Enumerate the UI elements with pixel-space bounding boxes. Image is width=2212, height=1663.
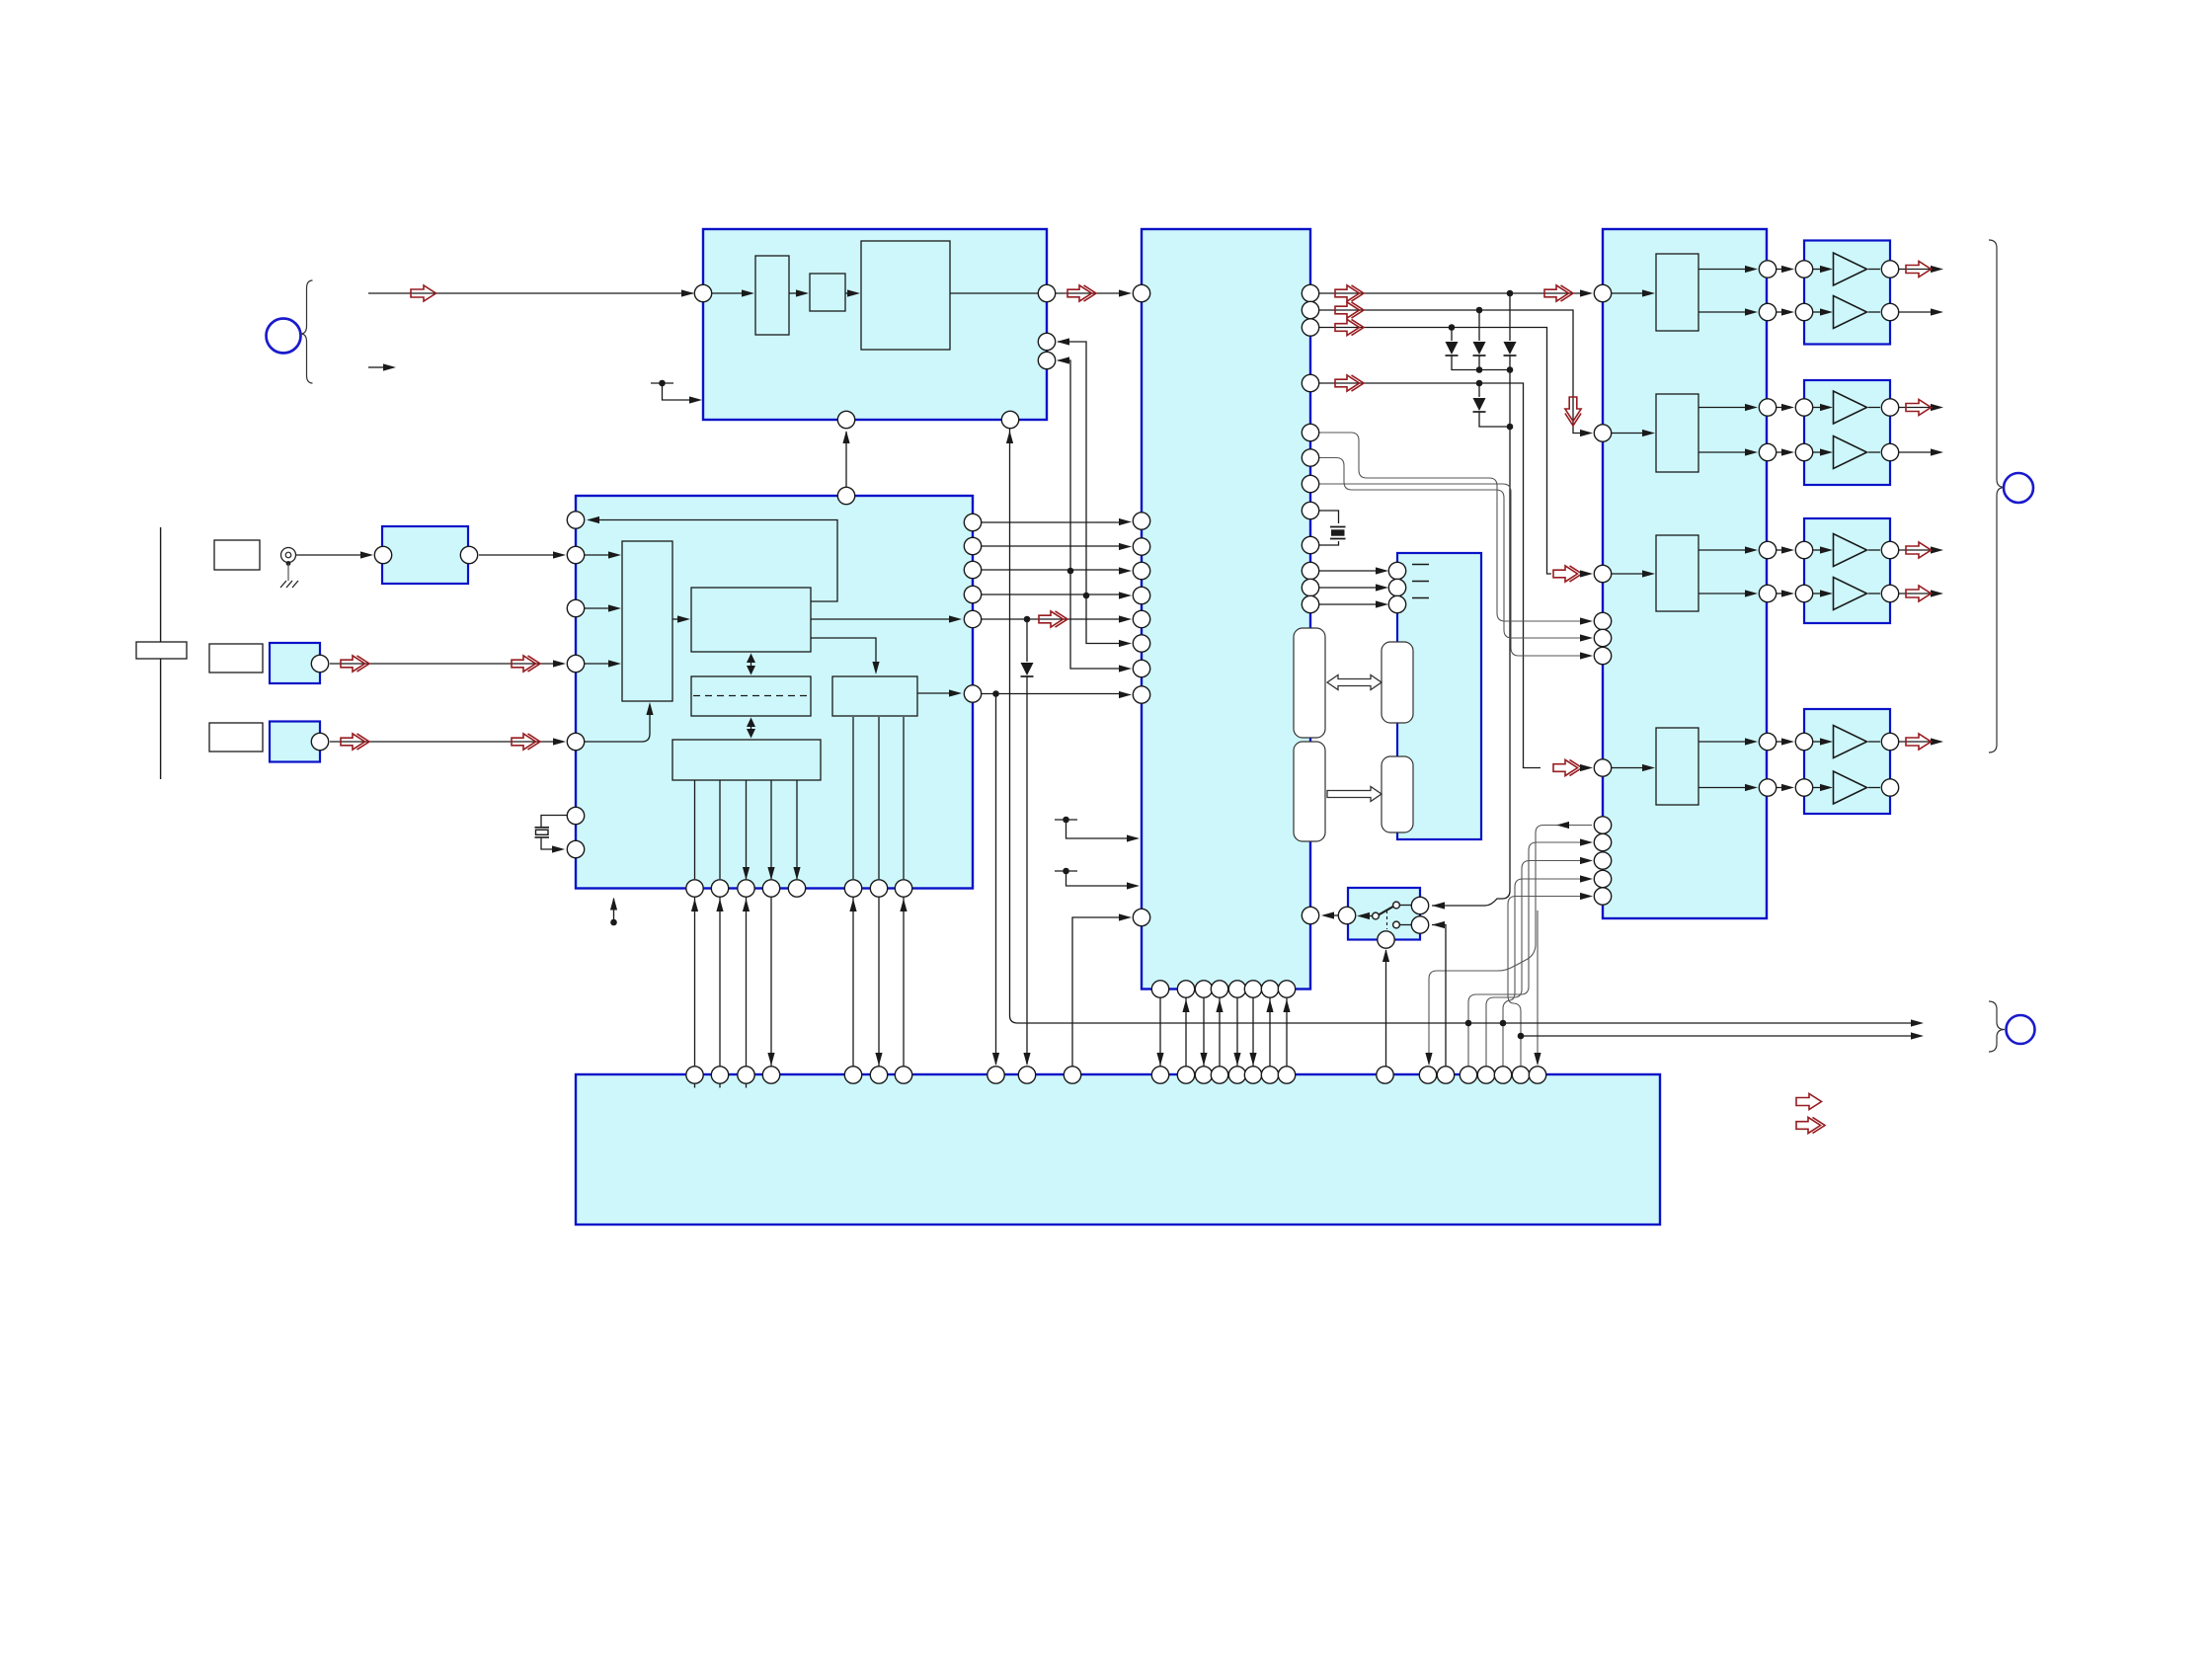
wire servo-DSP data4 (982, 594, 1121, 595)
arrowhead DAC rect 4 (1642, 764, 1655, 771)
servo in4 pin (567, 733, 584, 750)
firmware box F4 (1382, 756, 1413, 832)
op-amp triangle bottom 1 (1834, 296, 1867, 329)
DAC channel rect 1 (1656, 254, 1698, 331)
switch common contact (1373, 912, 1380, 919)
arrowhead switch lower pin (1432, 921, 1445, 928)
optical pickup circle (267, 319, 301, 354)
RF input pin (694, 284, 711, 301)
wire core out (811, 618, 951, 620)
wire DSP-syscon x1253 (1236, 998, 1238, 1067)
RF bottom pin b (1001, 411, 1018, 428)
wire X2 top (1319, 511, 1339, 523)
op-amp triangle top 1 (1834, 253, 1867, 285)
arrowhead power tap 1 (1127, 834, 1140, 841)
junction rail1 b (1500, 1020, 1507, 1027)
syscon pin26 (1529, 1067, 1545, 1083)
red arrow S2 a (341, 734, 369, 750)
wire servo interface lead x781 (770, 780, 772, 879)
arrowhead up servo pin x703.5 (691, 899, 698, 911)
wire DAC in 1 (1612, 292, 1644, 294)
sub pin stub 2 (1412, 581, 1429, 583)
arrowhead RF power tap (689, 396, 702, 403)
wire D5 to syscon (1026, 676, 1028, 1065)
arrowhead up servo pin x729 (716, 899, 723, 911)
DSP in pin4 (1133, 562, 1149, 579)
amp out pin top 3 (1881, 541, 1898, 558)
diode D4 (1473, 398, 1486, 411)
DSP in pin8 (1133, 660, 1149, 676)
switch link dashed (1386, 911, 1388, 929)
wire tri out bottom 3 (1868, 593, 1880, 594)
arrowhead pickup stub (383, 363, 396, 370)
DAC aux pin1 (1594, 612, 1611, 629)
arrowhead DSP switch pin (1321, 911, 1334, 918)
arrowhead sub pin 2 (1376, 584, 1388, 591)
red arrow line out y751 (1906, 734, 1932, 750)
wire DSP-sub 1 (1319, 570, 1378, 572)
arrowhead DSP clk (1119, 691, 1132, 698)
arrowhead DAC bus5 (1580, 893, 1593, 900)
wire line out y751 (1899, 741, 1933, 743)
wire servo-syscon x890 (878, 898, 880, 1067)
DSP left pin10 (1133, 909, 1149, 925)
wire DAC out bottom 1 (1698, 311, 1747, 313)
wire throw bottom (1400, 924, 1412, 926)
label box L1 (214, 540, 260, 570)
wire DAC bus4 (1503, 879, 1582, 1067)
arrowhead DSP data1 (1119, 518, 1132, 525)
syscon pin8 (987, 1067, 1004, 1083)
wire syscon pin stub x703.5 (694, 1083, 696, 1088)
wire switch common out (1367, 915, 1373, 917)
syscon pin7 (895, 1067, 911, 1083)
DSP in pin7 (1133, 635, 1149, 652)
open double arrow F1-F2 (1327, 675, 1382, 690)
DAC bus pin2 (1594, 833, 1611, 850)
DSP aux pin1 (1302, 424, 1318, 440)
wire core to RAM (750, 659, 752, 670)
amp in pin top 4 (1795, 733, 1812, 750)
junction clk (992, 690, 999, 697)
DAC in pin4 (1594, 759, 1611, 776)
wire line out y316 (1899, 311, 1933, 313)
arrowhead crystal bottom (552, 845, 565, 852)
DSP bottom pin3 (1195, 981, 1212, 997)
diode D1 (1446, 342, 1459, 355)
DSP sub pin1 (1302, 562, 1318, 579)
arrowhead tri bottom 4 (1820, 784, 1833, 791)
syscon pin14 (1211, 1067, 1227, 1083)
firmware box F1 (1294, 628, 1325, 738)
servo in3 pin (567, 655, 584, 672)
sub in pin3 (1388, 595, 1405, 612)
wire DAC out bottom 4 (1698, 787, 1747, 789)
arrowhead DAC aux3 (1580, 652, 1593, 659)
DSP bottom pin8 (1278, 981, 1295, 997)
wire line out y557 (1899, 549, 1933, 551)
switch right pin bottom (1411, 916, 1428, 933)
arrowhead into servo in1 (553, 551, 566, 558)
arrowhead selector in3 (608, 660, 621, 667)
wire DAC bus5 (1508, 897, 1582, 1067)
arrowhead servo out pin (949, 615, 962, 622)
IC digital signal processor block (1142, 229, 1310, 990)
wire power tap 2 (1066, 871, 1130, 886)
servo bottom pin7 (870, 880, 887, 897)
op-amp triangle top 2 (1834, 391, 1867, 424)
DSP sub pin3 (1302, 595, 1318, 612)
wire crystal bottom (541, 838, 554, 849)
red arrow RF out (1067, 285, 1096, 301)
amp out pin top 1 (1881, 261, 1898, 277)
RF bottom pin a (837, 411, 854, 428)
wire DAC out top 3 (1698, 549, 1747, 551)
wire DSP-syscon x1175 (1159, 998, 1161, 1067)
arrowhead into RF input pin (681, 289, 694, 296)
servo xtal pin a (567, 807, 584, 824)
wire amp tri bottom 2 (1813, 451, 1822, 453)
firmware box F3 (1294, 742, 1325, 841)
DAC in pin2 (1594, 425, 1611, 441)
arrowhead DSP data2 (1119, 543, 1132, 550)
arrowhead DAC pin bottom 3 (1745, 590, 1758, 596)
wire servo in4 to selector bottom (585, 713, 650, 742)
filter in pin (374, 546, 391, 563)
DAC bus pin3 (1594, 852, 1611, 869)
wire servo-syscon x729 (719, 898, 721, 1067)
arrowhead into switch top pin (1432, 902, 1445, 909)
arrowhead power tap 2 (1127, 882, 1140, 889)
wire servo-syscon x703.5 (694, 898, 696, 1067)
arrowhead test point (610, 898, 617, 911)
output group circle (2004, 473, 2033, 503)
RF fb pin1 (1038, 333, 1055, 350)
servo in1 pin (567, 546, 584, 563)
power tap bar 1 (1055, 819, 1077, 821)
red arrow S1 a (341, 656, 369, 672)
arrowhead tri bottom 2 (1820, 448, 1833, 455)
arrowhead sub pin 3 (1376, 600, 1388, 607)
IC servo/DSP block (576, 496, 973, 889)
wire servo-syscon x864 (852, 898, 854, 1067)
arrowhead down syscon pin x1269 (1249, 1053, 1256, 1066)
syscon pin18 (1278, 1067, 1295, 1083)
RF fb pin2 (1038, 352, 1055, 368)
wire DSP out BCK (1319, 310, 1582, 434)
syscon pin2 (711, 1067, 728, 1083)
wire DAC out top 2 (1698, 407, 1747, 409)
amp in pin bottom 3 (1795, 585, 1812, 601)
DAC channel rect 3 (1656, 535, 1698, 611)
wire servo clock lead x915 (903, 717, 905, 879)
wire DSP-sub 3 (1319, 603, 1378, 605)
wire rail2 (1521, 1035, 1913, 1037)
wire DSP-syscon x1303 (1286, 998, 1288, 1067)
servo RAM divider (693, 695, 809, 697)
wire clk branch to syscon (995, 694, 997, 1066)
DSP in pin9 (1133, 686, 1149, 703)
wire switch lower in (1432, 925, 1446, 1067)
DSP in pin2 (1133, 513, 1149, 529)
servo bottom pin8 (895, 880, 911, 897)
wire DAC out top 1 (1698, 269, 1747, 271)
servo RAM rect (691, 676, 811, 716)
wire DSP aux1 to DAC (1319, 433, 1582, 621)
DAC bus pin5 (1594, 888, 1611, 905)
arrowhead line out y272.5 (1931, 266, 1943, 273)
switch bottom pin (1378, 931, 1394, 948)
jack ground dot (286, 561, 291, 566)
arrowhead DAC in1 (1580, 289, 1593, 296)
red arrow DATA b (1553, 566, 1582, 582)
arrowhead into RF pin fb2 (1057, 356, 1069, 363)
arrowhead DAC aux1 (1580, 617, 1593, 624)
wire syscon pin stub x729 (719, 1083, 721, 1088)
arrowhead down syscon pin x1175 (1156, 1053, 1163, 1066)
arrowhead into RF pin fb1 (1057, 338, 1069, 345)
wire servo clock lead x864 (852, 717, 854, 879)
DSP xtal pin a (1302, 502, 1318, 518)
wire DAC-amp top 2 (1777, 407, 1783, 409)
wire tri out bottom 4 (1868, 787, 1880, 789)
DSP out pin3 (1302, 319, 1318, 336)
servo out pin6 (964, 685, 981, 702)
wire S2 to servo (330, 741, 555, 743)
syscon pin25 (1512, 1067, 1529, 1083)
syscon pin24 (1494, 1067, 1511, 1083)
RF inner stage 2 (810, 274, 845, 311)
op-amp triangle bottom 4 (1834, 771, 1867, 804)
servo clock rect (832, 676, 917, 716)
servo out pin1 (964, 514, 981, 530)
diode D3 (1504, 342, 1517, 355)
junction BCK (1476, 307, 1483, 314)
arrowhead tri top 3 (1820, 546, 1833, 553)
syscon pin3 (738, 1067, 754, 1083)
DAC right pin bottom 1 (1759, 303, 1776, 320)
wire X2 bottom (1319, 541, 1339, 545)
arrowhead into servo in2 (553, 660, 566, 667)
wire DAC in 4 (1612, 767, 1644, 769)
wire DAC out top 4 (1698, 741, 1747, 743)
wire amp tri bottom 1 (1813, 311, 1822, 313)
junction EFM diode (1024, 616, 1031, 623)
amp in pin top 3 (1795, 541, 1812, 558)
arrowhead core-RAM down (747, 666, 755, 675)
syscon pin21 (1437, 1067, 1454, 1083)
arrowhead tri top 1 (1820, 266, 1833, 273)
red arrow DATA (1335, 319, 1364, 335)
junction rail2 (1518, 1033, 1525, 1040)
arrowhead syscon pin26 (1534, 1053, 1540, 1066)
arrowhead up DSP pin x1303 (1283, 999, 1290, 1012)
DAC channel rect 2 (1656, 394, 1698, 472)
wire APC2 branch up (1058, 342, 1086, 595)
wire syscon pin stub x755.5 (746, 1083, 748, 1088)
wire amp tri bottom 3 (1813, 593, 1822, 594)
arrowhead sub pin 1 (1376, 567, 1388, 574)
amp out pin top 4 (1881, 733, 1898, 750)
arrowhead down syscon pin x1219 (1200, 1053, 1207, 1066)
wire D4 anode (1478, 383, 1480, 397)
wire servo clock lead x890 (878, 717, 880, 879)
wire D5 anode (1026, 619, 1028, 662)
arrowhead up servo pin x864 (849, 899, 856, 911)
junction APC2 (1083, 593, 1090, 599)
wire DSP-syscon x1286 (1269, 998, 1271, 1067)
amp in pin top 2 (1795, 399, 1812, 416)
amp in pin bottom 2 (1795, 443, 1812, 460)
arrowhead DAC in3 (1580, 570, 1593, 577)
servo bottom pin6 (844, 880, 861, 897)
DSP out pin4 (1302, 374, 1318, 391)
arrowhead down syscon x890 (875, 1053, 882, 1066)
wire amp tri top 1 (1813, 269, 1822, 271)
arrowhead down syscon pin x1253 (1233, 1053, 1240, 1066)
servo bottom pin2 (711, 880, 728, 897)
chassis ground (280, 581, 298, 588)
wire RF to servo vertical (845, 432, 847, 487)
arrowhead tri top 4 (1820, 738, 1833, 745)
wire tri out bottom 2 (1868, 451, 1880, 453)
arrowhead up servo pin x755.5 (743, 899, 750, 911)
wire switch to DSP (1331, 914, 1338, 916)
wire RAM to interface (750, 722, 752, 734)
wire RF out to DSP (1056, 292, 1121, 294)
wire DAC-amp bottom 1 (1777, 311, 1783, 313)
open arrow F3-F4 (1327, 787, 1382, 802)
wire D1 anode (1451, 328, 1453, 342)
wire servo in3 to selector (585, 663, 610, 665)
arrowhead DAC bus4 (1580, 875, 1593, 882)
RF inner stage 1 (755, 256, 789, 335)
arrowhead line out y316 (1931, 308, 1943, 315)
servo bottom pin1 (686, 880, 703, 897)
junction DATA (1449, 324, 1456, 331)
arrowhead into DSP pin fb1 (1119, 640, 1132, 647)
DSP out pin1 (1302, 284, 1318, 301)
syscon pin12 (1177, 1067, 1194, 1083)
wire servo interface lead x703.5 (694, 780, 696, 879)
wire tri out top 4 (1868, 741, 1880, 743)
wire line out y272.5 (1899, 269, 1933, 271)
wire stage1 to stage2 (789, 292, 798, 294)
wire APC2 branch down (1086, 595, 1121, 644)
red arrow LRCK a (1335, 285, 1364, 301)
syscon pin4 (762, 1067, 779, 1083)
op-amp triangle bottom 2 (1834, 436, 1867, 469)
switch right pin top (1411, 897, 1428, 913)
wire core feedback (597, 520, 837, 602)
servo DSP core rect (691, 588, 811, 652)
arrowhead up DSP pin x1286 (1266, 999, 1273, 1012)
wire power tap 1 (1066, 820, 1130, 838)
servo bottom pin3 (738, 880, 754, 897)
wire servo-DSP clk (982, 693, 1121, 695)
wire DAC out bottom 3 (1698, 593, 1747, 594)
syscon pin9 (1018, 1067, 1035, 1083)
wire tri out bottom 1 (1868, 311, 1880, 313)
power tap bar 2 (1055, 870, 1077, 872)
wire servo-syscon x755.5 (746, 898, 748, 1067)
switch block (1348, 888, 1420, 940)
servo bottom pin5 (788, 880, 805, 897)
arrowhead selector in1 (608, 551, 621, 558)
red arrow RF input (411, 285, 436, 301)
sub in pin1 (1388, 562, 1405, 579)
IC peripheral sub-block (1397, 553, 1481, 839)
syscon pin16 (1244, 1067, 1261, 1083)
DSP bottom pin4 (1211, 981, 1227, 997)
op-amp triangle bottom 3 (1834, 578, 1867, 610)
amp in pin bottom 4 (1795, 779, 1812, 796)
syscon pin17 (1261, 1067, 1278, 1083)
red arrow S2 b (512, 734, 540, 750)
red arrow LRCK b (1544, 285, 1573, 301)
servo top pin (837, 487, 854, 504)
DAC right pin top 4 (1759, 733, 1776, 750)
wire DSP-syscon x1201 (1185, 998, 1187, 1067)
DSP bottom pin5 (1228, 981, 1245, 997)
wire D2 cathode (1478, 356, 1480, 370)
wire D2 anode (1478, 310, 1480, 341)
wire servo in2 to selector (585, 607, 610, 609)
arrowhead line out y458 (1931, 448, 1943, 455)
arrowhead DAC aux2 (1580, 634, 1593, 641)
wire RF input line (368, 292, 693, 294)
IC DAC block (1603, 229, 1767, 918)
junction LRCK (1507, 290, 1514, 297)
switch throw contact top (1393, 902, 1400, 909)
DSP bottom pin6 (1244, 981, 1261, 997)
arrowhead tri bottom 1 (1820, 308, 1833, 315)
power tap dot 2 (1063, 868, 1069, 875)
wire DAC-amp top 3 (1777, 549, 1783, 551)
arrowhead RAM-IF down (747, 729, 755, 739)
DSP xtal pin b (1302, 536, 1318, 553)
wire rail1 (1010, 429, 1914, 1023)
arrowhead DAC pin top 4 (1745, 738, 1758, 745)
wire amp tri top 3 (1813, 549, 1822, 551)
syscon pin1 (686, 1067, 703, 1083)
servo in2 pin (567, 599, 584, 616)
wire stage2 to stage3 (845, 292, 849, 294)
DSP bottom pin7 (1261, 981, 1278, 997)
wire RF power tap (663, 383, 692, 400)
amp block A3 (1804, 518, 1890, 623)
arrowhead up DSP pin x1235 (1216, 999, 1223, 1012)
servo fb pin (567, 512, 584, 528)
wire line out y412.5 (1899, 407, 1933, 409)
servo xtal pin b (567, 840, 584, 857)
arrowhead stage1 (742, 289, 754, 296)
arrowhead amp in bottom 3 (1781, 590, 1794, 596)
wire servo interface lead x807 (796, 780, 798, 879)
op-amp triangle top 3 (1834, 534, 1867, 567)
arrowhead bus1 syscon (1425, 1053, 1432, 1066)
DSP in pin3 (1133, 538, 1149, 555)
arrowhead DAC rect 3 (1642, 570, 1655, 577)
switch left pin (1338, 907, 1355, 923)
jack ground lead (287, 564, 289, 582)
arrowhead DSP EFM (1119, 615, 1132, 622)
arrowhead down into servo pin x781 (767, 867, 774, 880)
syscon pin23 (1477, 1067, 1494, 1083)
DAC right pin top 2 (1759, 399, 1776, 416)
wire pickup stub (368, 366, 384, 368)
junction diode common b (1507, 366, 1514, 373)
